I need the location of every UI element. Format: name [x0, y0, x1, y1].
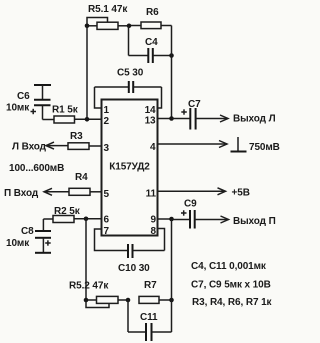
svg-text:R6: R6	[146, 7, 159, 18]
svg-text:9: 9	[151, 215, 157, 226]
svg-text:4: 4	[150, 142, 156, 153]
svg-text:R5.1 47к: R5.1 47к	[88, 4, 128, 15]
node R5.2 left junction	[84, 298, 89, 303]
svg-text:5: 5	[104, 189, 110, 200]
capacitor C9 with output arrow Выход П	[172, 199, 276, 229]
resistor R6	[129, 7, 172, 29]
svg-text:+5В: +5В	[232, 188, 250, 199]
svg-text:C10 30: C10 30	[118, 263, 150, 274]
svg-text:R7: R7	[144, 280, 157, 291]
svg-text:C8: C8	[21, 226, 34, 237]
svg-text:8: 8	[151, 226, 157, 237]
svg-text:К157УД2: К157УД2	[109, 162, 150, 173]
svg-text:100...600мВ: 100...600мВ	[9, 163, 64, 174]
svg-text:R4: R4	[75, 172, 88, 183]
wire R6 output down to pin 13	[171, 26, 173, 119]
svg-text:C11: C11	[140, 312, 158, 323]
svg-text:R1 5к: R1 5к	[52, 105, 79, 116]
wire C5 to pin 1	[95, 87, 102, 108]
svg-text:R5.2 47к: R5.2 47к	[69, 281, 109, 292]
svg-text:750мВ: 750мВ	[249, 142, 280, 153]
capacitor C5 30	[95, 68, 162, 94]
svg-text:C5 30: C5 30	[117, 68, 144, 79]
node R5.1/R6/C4 junction	[127, 24, 132, 29]
capacitor C11	[128, 300, 172, 341]
resistor R4	[69, 172, 102, 195]
svg-text:C4, C11 0,001мк: C4, C11 0,001мк	[191, 261, 267, 272]
svg-text:13: 13	[145, 116, 156, 127]
svg-text:C6: C6	[17, 91, 30, 102]
node R5.2/R7/C11 junction	[126, 298, 131, 303]
capacitor C10 30	[95, 229, 165, 274]
svg-text:Л Вход: Л Вход	[12, 142, 47, 153]
svg-text:14: 14	[145, 105, 156, 116]
resistor R7	[139, 280, 172, 303]
svg-text:10мк: 10мк	[6, 103, 30, 114]
wire pin 9	[158, 218, 172, 220]
wire pin 9 junction down to R7 right	[171, 219, 173, 300]
resistor R3	[68, 131, 102, 149]
node R2/pin6 junction	[84, 217, 89, 222]
svg-text:Выход Л: Выход Л	[233, 114, 276, 125]
op-amp IC U1 К157УД2	[102, 100, 158, 238]
wire pin 11 to +5В	[158, 188, 250, 199]
svg-text:C9: C9	[184, 199, 197, 210]
wire C4 branch vertical	[128, 26, 130, 56]
svg-text:C7, C9 5мк x 10В: C7, C9 5мк x 10В	[191, 280, 271, 291]
wire R2 junction down to R5.2	[85, 219, 87, 300]
wire pin 8 to C10	[158, 229, 165, 251]
svg-text:2: 2	[104, 116, 110, 127]
node pin13/C7 junction	[169, 116, 174, 121]
svg-text:R3: R3	[70, 131, 83, 142]
wire C5 to pin 14	[158, 87, 162, 108]
capacitor C8 10мк	[6, 219, 51, 253]
node pin9/C9 junction	[169, 217, 174, 222]
potentiometer R5.1 47к	[87, 4, 129, 29]
input П Вход arrow	[4, 188, 69, 199]
svg-text:R3, R4, R6, R7 1к: R3, R4, R6, R7 1к	[192, 297, 273, 308]
wire pin 13	[158, 118, 172, 120]
node C4/R6 right junction	[169, 53, 174, 58]
potentiometer R5.2 47к	[69, 281, 128, 308]
node R7 right junction	[169, 298, 174, 303]
node R1/feedback/pin2 junction	[85, 117, 90, 122]
resistor R1 5к	[43, 105, 102, 124]
svg-text:10мк: 10мк	[6, 238, 30, 249]
svg-text:11: 11	[146, 189, 157, 200]
capacitor C7 with output arrow Выход Л	[172, 99, 276, 130]
svg-text:7: 7	[104, 226, 110, 237]
svg-text:Выход П: Выход П	[233, 216, 276, 227]
resistor R2 5к	[43, 206, 101, 223]
capacitor C4	[129, 37, 172, 63]
wire feedback vertical to pin 2	[86, 26, 88, 119]
svg-text:C4: C4	[145, 37, 158, 48]
capacitor C6 10мк	[6, 85, 51, 120]
node R5.1 left junction	[85, 24, 90, 29]
svg-text:6: 6	[104, 215, 110, 226]
svg-text:3: 3	[104, 143, 110, 154]
ground symbol 750мВ	[231, 137, 280, 153]
wire pin 4 to ground	[158, 141, 228, 148]
input Л Вход arrow	[12, 142, 68, 153]
svg-text:П Вход: П Вход	[4, 188, 39, 199]
svg-text:1: 1	[104, 105, 110, 116]
